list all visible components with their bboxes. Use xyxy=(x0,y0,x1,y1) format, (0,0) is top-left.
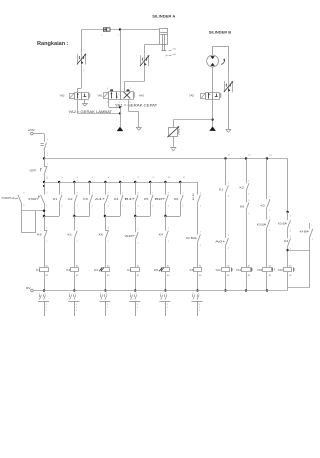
contact K3 BAT rung 15 xyxy=(278,212,292,238)
check valve on cap line xyxy=(101,28,119,37)
wire supply B to regulator xyxy=(173,120,212,128)
node rail1 rung13 xyxy=(245,157,247,159)
rung 14 contacts K2 and K3 BAT xyxy=(257,159,271,268)
contact table K2 xyxy=(68,293,79,316)
flow control valve FC3 xyxy=(224,81,232,92)
svg-text:YA1 = GERAK CEPAT: YA1 = GERAK CEPAT xyxy=(115,103,158,107)
compressed air supply A xyxy=(117,127,124,132)
svg-text:YA5: YA5 xyxy=(257,269,263,272)
node 0V column 165.4 xyxy=(164,289,166,291)
node start rung selector tap xyxy=(43,210,45,212)
svg-text:2: 2 xyxy=(167,304,168,306)
wire parallel merge at column 74.3 xyxy=(74,203,89,217)
node 0V column 135.2 xyxy=(134,289,136,291)
parallel branch contact K4 BAT xyxy=(288,223,314,288)
svg-text:2: 2 xyxy=(160,293,161,295)
node cap line to valve riser xyxy=(119,28,121,30)
wire FC3 down to exhaust xyxy=(228,93,230,129)
contact K1 interlock column 74.3 xyxy=(68,216,79,267)
node supply A lower xyxy=(119,112,121,114)
contact K2 BA interlock column 197.5 xyxy=(186,216,202,267)
svg-text:Rangkaian :: Rangkaian : xyxy=(37,41,69,47)
svg-text:2: 2 xyxy=(46,310,47,312)
contact A1 rung 6 xyxy=(95,182,110,208)
contact K2 rung 4 xyxy=(68,182,78,208)
contact table K3 xyxy=(99,293,110,316)
contact K6 interlock column 105.4 xyxy=(99,216,110,267)
rotation arrow xyxy=(221,59,225,65)
svg-text:2: 2 xyxy=(107,307,108,309)
contact K4 interlock column 165.4 xyxy=(159,216,170,267)
contact K4 rung 15 xyxy=(284,236,292,267)
contact A0 interlock column 135.2 xyxy=(125,216,140,267)
contact B0 rung 10 xyxy=(155,182,170,208)
wire +24V to switch xyxy=(33,134,44,142)
muffler YA2 exhaust xyxy=(82,99,87,106)
contact table K6 xyxy=(192,293,203,316)
wire coil K1 to 0V rail xyxy=(44,272,46,291)
svg-text:YA2: YA2 xyxy=(215,269,221,272)
wire YA3 coil to 0V xyxy=(287,272,289,291)
wire YA5 coil to 0V xyxy=(266,272,268,291)
valve YA2 3/2 solenoid xyxy=(60,93,90,100)
rung numbers 2-11 xyxy=(46,177,185,179)
flow control valve FC1 xyxy=(78,54,86,65)
solenoid coil YA1 xyxy=(236,264,253,277)
svg-text:2: 2 xyxy=(130,293,131,295)
wire YA1 exhaust to muffler xyxy=(128,99,138,127)
node merge 44 xyxy=(43,215,45,217)
node merge 135.2 xyxy=(134,215,136,217)
svg-text:4: 4 xyxy=(46,304,47,306)
wire motor left port up and over xyxy=(213,46,229,80)
cylinder A xyxy=(160,29,168,51)
node rail2 start tap xyxy=(43,185,45,187)
terminal 0V xyxy=(26,286,33,292)
contact table K5 xyxy=(159,293,170,316)
contact K6 interlock column 44 xyxy=(37,216,48,267)
wire switch to rail xyxy=(44,150,46,158)
svg-text:SILINDER B: SILINDER B xyxy=(209,29,232,34)
wire YA2 supply port xyxy=(78,99,121,113)
contact B1 rung 8 xyxy=(125,182,140,208)
contact K5 rung 9 xyxy=(144,182,154,208)
svg-text:+24V: +24V xyxy=(27,128,34,132)
wire selector alternate path xyxy=(21,211,35,233)
muffler motor exhaust xyxy=(226,129,231,131)
svg-text:2: 2 xyxy=(76,307,77,309)
svg-text:START: START xyxy=(28,197,39,201)
node 0V YA2 xyxy=(224,289,226,291)
svg-text:2: 2 xyxy=(130,88,131,90)
svg-text:2: 2 xyxy=(199,307,200,309)
svg-text:5: 5 xyxy=(107,102,108,104)
wire YA2 coil to 0V xyxy=(225,272,227,291)
svg-text:YA2 = GERAK LAMBAT: YA2 = GERAK LAMBAT xyxy=(69,110,113,114)
nodes on control rail xyxy=(58,181,182,183)
node 0V column 74.3 xyxy=(73,289,75,291)
wire supply A riser xyxy=(120,107,122,126)
contact rung 11 with rotated label xyxy=(193,182,202,216)
relay coil K1 xyxy=(36,264,49,277)
svg-text:2: 2 xyxy=(137,307,138,309)
node 0V column 105.4 xyxy=(104,289,106,291)
node 0V YA5 xyxy=(266,289,268,291)
contact K3 rung 5 xyxy=(83,182,93,208)
node merge 104.9 xyxy=(104,215,106,217)
svg-text:4: 4 xyxy=(137,304,138,306)
rail 0V horizontal xyxy=(33,290,287,292)
relay coil K5 xyxy=(154,264,170,277)
svg-text:YA6: YA6 xyxy=(139,94,145,97)
pressure regulator xyxy=(167,126,179,137)
solenoid coil YA3 xyxy=(278,264,295,277)
relay coil K6 xyxy=(190,264,203,277)
node rail2 col1 xyxy=(43,181,45,183)
relay coil K3 xyxy=(94,264,110,277)
node rail1 rung14 xyxy=(266,157,268,159)
wire coil K6 to 0V rail xyxy=(197,272,199,291)
rung numbers 12-14 xyxy=(228,154,273,156)
wire coil K2 to 0V rail xyxy=(74,272,76,291)
svg-text:2: 2 xyxy=(46,307,47,309)
wire cylinder A rod-side line xyxy=(145,45,160,54)
svg-text:2: 2 xyxy=(69,293,70,295)
contact K1 rung 3 xyxy=(53,182,63,208)
wire motor to valve YA5 xyxy=(212,67,214,92)
svg-text:4: 4 xyxy=(75,293,76,295)
svg-text:4: 4 xyxy=(166,293,167,295)
pin labels FC1 xyxy=(83,50,85,72)
node 0V column 197.5 xyxy=(196,289,198,291)
selector OTOMATIS 1/2 xyxy=(2,193,26,208)
svg-text:OTOMATIS 1/2: OTOMATIS 1/2 xyxy=(2,197,15,200)
contact K6 rung 11 xyxy=(174,182,184,208)
wire riser valve YA1 to cap line xyxy=(120,30,122,92)
node rung 15 top xyxy=(286,211,288,213)
svg-text:4: 4 xyxy=(44,293,45,295)
solenoid coil YA5 xyxy=(257,264,275,277)
wire parallel merge at column 165.4 xyxy=(165,203,180,217)
wire cap line down to FC1 xyxy=(81,30,83,53)
svg-text:2: 2 xyxy=(39,293,40,295)
svg-text:2: 2 xyxy=(199,310,200,312)
svg-text:YA1: YA1 xyxy=(97,95,103,98)
wire selector to start rung xyxy=(21,203,44,211)
wire parallel merge at column 44 xyxy=(44,203,60,217)
relay coil K2 xyxy=(67,264,80,277)
wire YA1 supply port xyxy=(109,99,121,107)
node 0V YA1 xyxy=(245,289,247,291)
muffler YA1 exhaust xyxy=(136,127,141,129)
valve YA1 5/2 double solenoid xyxy=(97,88,144,104)
svg-text:4: 4 xyxy=(76,304,77,306)
wire parallel merge at column 135.2 xyxy=(135,203,150,217)
node rail1 col1 xyxy=(43,157,45,159)
svg-text:4: 4 xyxy=(136,293,137,295)
rail control horizontal xyxy=(44,182,198,184)
wire FC1 down to valve YA2 xyxy=(78,66,82,93)
node merge 165.4 xyxy=(164,215,166,217)
wire coil K4 to 0V rail xyxy=(135,272,137,291)
node supply B xyxy=(211,118,213,120)
air motor silinder B xyxy=(207,55,219,67)
svg-text:2: 2 xyxy=(167,307,168,309)
relay coil K4 xyxy=(127,264,140,277)
wire parallel merge at column 104.9 xyxy=(105,203,121,217)
contact START rung 2 xyxy=(28,182,48,208)
svg-text:4: 4 xyxy=(107,88,108,90)
contact table K1 xyxy=(38,293,49,316)
rung 12 contacts K1 and A0 xyxy=(215,159,230,268)
wire cylinder A cap line xyxy=(82,29,160,31)
svg-text:K4 BA: K4 BA xyxy=(300,230,309,233)
svg-text:4: 4 xyxy=(199,304,200,306)
flow control valve FC2 xyxy=(141,55,149,66)
switch S1 main xyxy=(41,139,49,155)
svg-text:0V: 0V xyxy=(26,286,31,290)
svg-text:4: 4 xyxy=(198,293,199,295)
svg-text:4: 4 xyxy=(106,293,107,295)
rung 13 contacts K2 and K6 xyxy=(240,159,251,268)
solenoid coil YA2 xyxy=(215,264,232,277)
wire YA1 coil to 0V xyxy=(246,272,248,291)
contact K4 rung 7 xyxy=(114,182,124,208)
svg-text:2: 2 xyxy=(107,304,108,306)
node 0V column 44 xyxy=(43,289,45,291)
rung 15 riser from rail corner xyxy=(287,159,289,213)
svg-text:YA2: YA2 xyxy=(60,95,66,98)
cylinder A position ruler A1 A0 xyxy=(166,47,177,56)
exhaust regulator xyxy=(170,148,176,152)
rail 24V horizontal xyxy=(44,158,288,160)
wire coil K5 to 0V rail xyxy=(165,272,167,291)
svg-text:SILINDER A: SILINDER A xyxy=(152,14,175,19)
node rail1 rung12 xyxy=(224,157,226,159)
node rung 15 branch lower xyxy=(286,249,288,251)
svg-text:YA1: YA1 xyxy=(236,269,242,272)
node merge 74.3 xyxy=(73,215,75,217)
compressed air supply B xyxy=(209,126,216,130)
wire regulator drain xyxy=(173,136,175,147)
wire YA5 supply stub xyxy=(212,99,214,126)
node supply A upper xyxy=(119,106,121,108)
svg-text:2: 2 xyxy=(192,293,193,295)
svg-text:2: 2 xyxy=(100,293,101,295)
svg-text:YA3: YA3 xyxy=(278,269,284,272)
pushbutton OFF NC xyxy=(30,159,49,183)
terminal +24V xyxy=(27,128,34,135)
wire coil K3 to 0V rail xyxy=(105,272,107,291)
contact table K4 xyxy=(129,293,140,316)
svg-text:OFF: OFF xyxy=(30,168,37,172)
wire FC2 down to valve YA1 xyxy=(125,67,145,91)
svg-text:2: 2 xyxy=(76,310,77,312)
valve YA5 3/2 solenoid xyxy=(189,93,221,100)
svg-text:YA5: YA5 xyxy=(189,95,195,98)
svg-text:K2 BA: K2 BA xyxy=(186,237,196,240)
